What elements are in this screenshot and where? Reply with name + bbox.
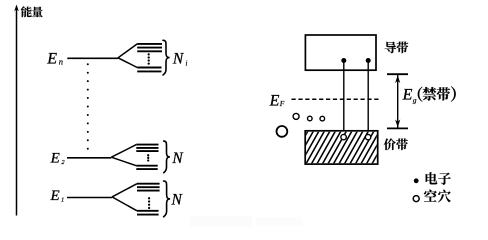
band count label N_i <box>172 51 188 68</box>
faint watermark remnants <box>190 216 302 227</box>
svg-text:1: 1 <box>61 196 64 203</box>
level E_1 line <box>67 197 112 199</box>
band fan for E_n <box>118 44 162 72</box>
svg-text:E: E <box>50 150 60 166</box>
svg-text:N: N <box>172 51 185 68</box>
svg-text:E: E <box>402 87 413 104</box>
brace for E_2 band N <box>164 141 170 173</box>
label 导带 <box>385 42 409 54</box>
brace for band N_i <box>163 40 170 75</box>
legend electron dot <box>414 178 419 183</box>
svg-text:n: n <box>59 56 63 66</box>
level E_2 line <box>67 157 111 159</box>
label 价带 <box>384 138 408 150</box>
band count label N (E_1) <box>171 191 184 208</box>
brace for E_1 band N <box>164 181 171 217</box>
level E_n line <box>67 57 118 59</box>
svg-text:2: 2 <box>61 159 65 166</box>
axis label 能量 <box>21 6 43 17</box>
svg-text:E: E <box>269 93 280 110</box>
svg-text:i: i <box>186 59 188 67</box>
conduction band box <box>305 35 376 70</box>
legend label 空穴 <box>424 190 451 203</box>
legend label 电子 <box>426 172 451 185</box>
svg-text:N: N <box>171 150 184 167</box>
large hole circle <box>277 126 288 137</box>
band fan for E_1 <box>112 184 160 215</box>
small hole circles below Fermi level <box>293 113 325 120</box>
level label E_1 <box>50 188 65 204</box>
energy axis with arrow <box>14 5 19 216</box>
svg-text:g: g <box>413 95 417 104</box>
band fan for E_2 <box>111 145 158 170</box>
band gap arrow E_g <box>387 74 408 128</box>
label E_g (禁带) <box>402 86 456 104</box>
Fermi level label E_F <box>269 93 285 110</box>
legend hole circle <box>413 196 419 202</box>
level label E_n <box>46 51 63 68</box>
svg-text:N: N <box>171 191 184 208</box>
svg-text:E: E <box>46 51 57 68</box>
Fermi level dashed line <box>292 98 381 100</box>
hole circles on valence band top <box>341 134 371 139</box>
band count label N (E_2) <box>171 150 184 167</box>
dotted connector E_n to E_2 <box>87 63 89 149</box>
svg-text:E: E <box>50 188 60 204</box>
svg-text:F: F <box>279 99 285 108</box>
electron dots in conduction band <box>341 58 370 63</box>
electron transition lines <box>344 61 368 135</box>
level label E_2 <box>50 150 66 166</box>
valence band box (hatched) <box>288 130 397 167</box>
